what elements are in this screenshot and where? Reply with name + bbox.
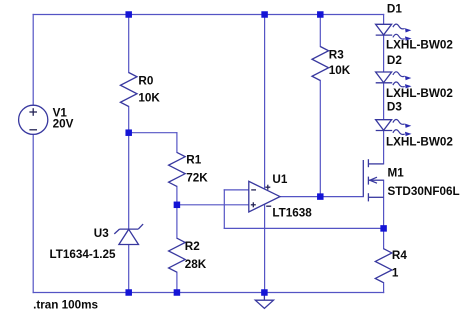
mosfet M1 [362, 160, 364, 197]
wire node R0-R1 horizontal [129, 132, 177, 134]
led D3 [376, 120, 392, 131]
svg-text:D2: D2 [387, 54, 402, 67]
svg-text:10K: 10K [138, 92, 160, 105]
shunt reference U3 [119, 229, 139, 244]
wire R3 top lead [319, 15, 321, 47]
op-amp U1 [249, 181, 280, 212]
wire op-amp output to gate [280, 196, 363, 198]
svg-text:R4: R4 [392, 249, 407, 262]
wire op-amp V- power [264, 204, 266, 292]
wire U3 anode lead [128, 245, 130, 293]
svg-text:D3: D3 [387, 100, 402, 113]
node junction top R3 [317, 11, 324, 18]
svg-text:R3: R3 [329, 48, 344, 61]
svg-text:10K: 10K [329, 64, 351, 77]
wire M1 source to sense node [383, 180, 385, 228]
svg-text:R0: R0 [138, 75, 153, 88]
svg-text:28K: 28K [185, 258, 207, 271]
svg-text:LXHL-BW02: LXHL-BW02 [386, 87, 453, 100]
wire bottom ground rail [33, 292, 383, 294]
resistor R0 [120, 73, 137, 107]
svg-text:D1: D1 [387, 2, 402, 15]
wire U3 cathode lead [128, 133, 130, 229]
wire R2 top lead [176, 205, 178, 238]
wire D2-D3 [383, 83, 385, 120]
resistor R3 [312, 47, 329, 81]
wire top rail [33, 14, 383, 16]
svg-text:STD30NF06L: STD30NF06L [388, 185, 460, 198]
node junction bottom U3 [125, 289, 132, 296]
wire left column bottom (V1 to ground rail) [32, 134, 34, 292]
wire op-amp -input horizontal [224, 189, 249, 191]
svg-text:20V: 20V [53, 118, 74, 131]
wire R4 bottom lead [383, 283, 385, 293]
wire R1 top lead [176, 133, 178, 153]
svg-text:LT1634-1.25: LT1634-1.25 [50, 248, 117, 261]
node junction bottom ground [261, 289, 268, 296]
wire op-amp V+ power [264, 15, 266, 190]
wire D1 anode drop [383, 15, 385, 25]
svg-text:M1: M1 [388, 166, 405, 179]
ground [263, 293, 265, 301]
wire R0 top lead [128, 15, 130, 73]
node junction gate R3 output [317, 193, 324, 200]
wire R1 bottom lead [176, 186, 178, 204]
wire left column top (V+ to V1) [32, 15, 34, 106]
svg-text:72K: 72K [186, 171, 208, 184]
wire R3 bottom lead [319, 81, 321, 197]
node junction sense R4 source [380, 225, 387, 232]
svg-text:U1: U1 [272, 173, 287, 186]
resistor R4 [375, 249, 392, 283]
led D2 [376, 72, 392, 83]
svg-text:1: 1 [392, 267, 399, 280]
resistor R1 [169, 152, 186, 186]
node junction divider R1 R2 [174, 202, 181, 209]
svg-text:LT1638: LT1638 [272, 206, 312, 219]
svg-text:.tran 100ms: .tran 100ms [33, 298, 98, 311]
svg-text:LXHL-BW02: LXHL-BW02 [386, 135, 453, 148]
wire R4 top lead [383, 228, 385, 248]
resistor R2 [169, 238, 186, 272]
wire divider node to op-amp +input [177, 204, 249, 206]
svg-text:R1: R1 [186, 153, 201, 166]
node junction top op-amp V+ [261, 11, 268, 18]
wire D1-D2 [383, 35, 385, 72]
wire D3 to M1 drain [383, 130, 385, 164]
node junction bottom R2 [174, 289, 181, 296]
svg-text:LXHL-BW02: LXHL-BW02 [386, 38, 453, 51]
svg-text:U3: U3 [94, 227, 109, 240]
wire feedback horizontal to sense node [224, 227, 383, 229]
wire R2 bottom lead [176, 272, 178, 292]
led D1 [376, 24, 392, 35]
voltage source V1 [19, 105, 48, 134]
wire R0 bottom lead [128, 107, 130, 133]
wire feedback vertical [223, 190, 225, 229]
node junction R0 bottom [125, 129, 132, 136]
svg-text:R2: R2 [185, 240, 200, 253]
node junction top R0 [125, 11, 132, 18]
